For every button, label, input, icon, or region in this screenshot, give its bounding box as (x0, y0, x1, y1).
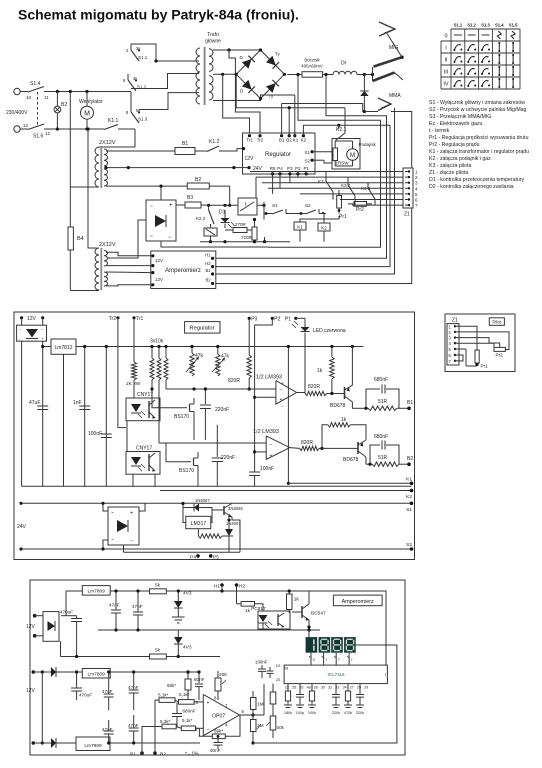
svg-text:II: II (444, 58, 448, 64)
svg-text:3: 3 (313, 658, 315, 662)
svg-text:220nF: 220nF (221, 455, 235, 461)
pin S2 (311, 159, 314, 162)
svg-text:K1.2: K1.2 (209, 139, 220, 145)
switch K1.1 (104, 125, 118, 130)
wire bs170 lower nets (166, 443, 187, 462)
svg-text:47nF: 47nF (132, 604, 143, 609)
svg-text:Amperomierz: Amperomierz (342, 599, 374, 605)
svg-text:Pr2 - Regulacja prądu: Pr2 - Regulacja prądu (429, 142, 480, 148)
svg-text:−: − (130, 538, 133, 544)
switch K1.2 (195, 150, 207, 152)
svg-text:2N3055: 2N3055 (228, 506, 243, 511)
svg-text:BD678: BD678 (330, 403, 346, 409)
valve Ez coil (204, 228, 217, 236)
svg-text:B3: B3 (187, 195, 193, 201)
svg-text:−: − (207, 727, 210, 733)
svg-text:680nF: 680nF (374, 434, 388, 440)
bottom rail 24V (123, 545, 125, 552)
svg-text:BD678: BD678 (343, 457, 359, 463)
wire 270R to rail (222, 535, 229, 537)
switch MMA blade (373, 73, 395, 82)
svg-text:Regulator: Regulator (265, 152, 291, 158)
svg-text:Tr2: Tr2 (257, 138, 264, 143)
fuse B3 (185, 202, 201, 208)
svg-text:+: + (207, 701, 210, 707)
svg-text:12V: 12V (26, 624, 36, 630)
wire bs170 upper nets (152, 389, 183, 408)
svg-text:S1 - Wyłącznik główny i zmiana: S1 - Wyłącznik główny i zmiana zakresów (429, 100, 525, 106)
fuse B2 (187, 183, 209, 189)
wire B2 fuse (209, 185, 229, 187)
regulator LM317 (139, 504, 145, 512)
svg-text:K1: K1 (406, 477, 412, 483)
svg-text:12V: 12V (27, 316, 37, 322)
wire trafo secondary to bridge (213, 49, 261, 51)
svg-text:+: + (130, 511, 133, 517)
svg-text:100nF: 100nF (88, 431, 102, 437)
wires display to ICL (310, 653, 312, 665)
capacitor 680nF op (172, 713, 182, 715)
wires regulator bottom pins drop (272, 174, 274, 194)
svg-text:B2: B2 (61, 102, 67, 108)
resistor 1k H2 (236, 585, 238, 604)
svg-text:1k: 1k (317, 368, 323, 374)
switch S1.3 (130, 106, 132, 112)
svg-text:820R: 820R (308, 384, 320, 390)
wire bottom small rail (200, 241, 290, 243)
svg-text:Lm7809: Lm7809 (88, 589, 106, 595)
svg-text:K2: K2 (321, 226, 327, 231)
svg-text:P5: P5 (213, 555, 219, 561)
input terminal L2 (14, 126, 20, 132)
svg-text:Lm7909: Lm7909 (84, 743, 102, 749)
svg-text:2X12V: 2X12V (99, 242, 116, 248)
wire Tr1 drop (133, 318, 135, 362)
svg-text:12V: 12V (26, 688, 36, 694)
fuse B4 (68, 227, 73, 250)
LED D2 czerwona (296, 317, 305, 319)
svg-text:1RSW: 1RSW (336, 161, 350, 166)
svg-text:Tr1: Tr1 (136, 316, 144, 322)
regulator Lm7909 (76, 737, 110, 751)
svg-text:Z1 - złącze pilota: Z1 - złącze pilota (429, 170, 468, 176)
svg-text:H2: H2 (239, 584, 245, 590)
svg-text:+: + (280, 397, 283, 403)
wire op07 out to right (253, 714, 264, 716)
wire row2 left (155, 726, 162, 728)
pin B2 (288, 134, 291, 137)
svg-text:24V: 24V (253, 166, 263, 172)
wire D1 top (223, 204, 226, 207)
potentiometer Pr1 (337, 196, 342, 209)
wire to primary 1 (134, 129, 136, 147)
regulator board outline (14, 312, 415, 560)
svg-text:S2 - Przycisk w uchwycie palni: S2 - Przycisk w uchwycie palnika Mig/Mag (429, 107, 527, 113)
switch state table S1.1-S1.5 (451, 28, 520, 30)
svg-text:11: 11 (44, 95, 49, 100)
svg-text:820R: 820R (228, 378, 240, 384)
svg-text:470uF: 470uF (60, 610, 73, 615)
svg-text:H1: H1 (205, 253, 211, 258)
terminal Tr2 mid (116, 316, 119, 319)
svg-text:B1: B1 (182, 141, 188, 147)
svg-text:12V: 12V (155, 277, 163, 282)
svg-text:CNY17: CNY17 (137, 392, 153, 398)
svg-text:K1: K1 (293, 138, 299, 143)
regulator Lm7809 no2 (32, 670, 36, 674)
wire bottom rail (48, 128, 104, 130)
terminal B1 bottom (140, 751, 144, 755)
pin K2 (302, 134, 305, 137)
svg-text:60nF: 60nF (210, 748, 221, 753)
wire bc547 to pc817 (262, 629, 264, 630)
wire display top (308, 630, 310, 637)
svg-text:Ty: Ty (275, 52, 281, 57)
svg-text:S3 - Przełącznik MMA/MIG: S3 - Przełącznik MMA/MIG (429, 114, 491, 120)
svg-text:K1 - załącza transformator i r: K1 - załącza transformator i regulator p… (429, 149, 529, 155)
svg-text:12: 12 (23, 123, 29, 128)
svg-text:Pr2: Pr2 (356, 207, 364, 213)
wire S3 S2 row (255, 177, 257, 212)
svg-text:B1: B1 (407, 400, 413, 406)
svg-text:Pr1: Pr1 (481, 364, 489, 369)
svg-text:29: 29 (364, 686, 368, 690)
svg-text:−: − (280, 388, 283, 394)
svg-text:100p: 100p (296, 711, 304, 715)
svg-text:P2: P2 (295, 166, 301, 171)
wire MMA to bottom (213, 112, 412, 284)
pin 12V (242, 147, 245, 150)
svg-text:400A60mV: 400A60mV (301, 63, 323, 68)
resistor 1RSW (333, 148, 338, 161)
svg-text:20: 20 (276, 678, 280, 682)
svg-text:5k: 5k (155, 648, 161, 654)
svg-text:7: 7 (338, 658, 340, 662)
svg-text:S1.4: S1.4 (495, 23, 504, 28)
resistor 1.5k icl (272, 684, 274, 692)
switch S1.1 (130, 44, 132, 50)
wire trafo sense taps Tr1 Tr2 (213, 73, 236, 75)
capacitor 220nF upper (204, 389, 206, 404)
wire CNY17 pins drop (132, 474, 134, 486)
svg-text:Ty: Ty (269, 94, 275, 99)
potentiometer Pr2 pilot (494, 347, 505, 351)
output arrow bottom (364, 111, 378, 113)
svg-text:K1: K1 (297, 225, 303, 230)
svg-text:Pr2: Pr2 (496, 353, 504, 358)
svg-text:47uF: 47uF (109, 603, 120, 608)
svg-text:B2: B2 (205, 278, 211, 283)
svg-text:25: 25 (292, 686, 296, 690)
wire H1 sense (268, 75, 381, 248)
wire 12V rails mid (21, 341, 23, 486)
svg-text:69k*: 69k* (214, 729, 223, 734)
diode 1N4007 over LM317 (183, 507, 194, 509)
svg-text:K2.2: K2.2 (196, 216, 206, 221)
svg-text:1N4007: 1N4007 (226, 521, 241, 526)
svg-text:+: + (270, 454, 273, 460)
svg-text:S1.1: S1.1 (138, 55, 148, 60)
pin K1 (293, 134, 296, 137)
svg-text:ICL7116: ICL7116 (327, 672, 344, 677)
svg-text:680nF: 680nF (183, 709, 196, 714)
svg-text:1nF: 1nF (73, 400, 82, 406)
svg-text:32: 32 (328, 686, 332, 690)
terminal P1 (294, 317, 297, 320)
svg-text:Lm7809: Lm7809 (88, 672, 106, 678)
switch K2.2 (208, 205, 210, 210)
wire bridge2 out bottom (161, 241, 268, 247)
svg-text:5,1k*: 5,1k* (158, 693, 169, 698)
svg-text:1N4007: 1N4007 (195, 498, 210, 503)
svg-text:27: 27 (350, 686, 354, 690)
svg-text:K2: K2 (301, 138, 307, 143)
relay coil K1 (294, 222, 306, 230)
svg-text:P3: P3 (287, 166, 293, 171)
pin 24V (247, 166, 250, 169)
svg-text:MMA: MMA (389, 93, 401, 99)
svg-text:220nF: 220nF (215, 407, 229, 413)
terminal P5 (209, 554, 213, 558)
svg-text:Tr1: Tr1 (246, 138, 253, 143)
svg-text:5,1k*: 5,1k* (179, 692, 190, 697)
svg-text:K2: K2 (406, 494, 412, 500)
ground rail mid (22, 485, 412, 487)
svg-text:B2: B2 (160, 752, 166, 758)
svg-text:10: 10 (26, 95, 32, 100)
svg-text:51R: 51R (378, 455, 388, 461)
svg-text:BC547: BC547 (311, 611, 326, 617)
terminal 12V mid (20, 316, 23, 319)
ground sym upper (172, 616, 185, 618)
svg-text:Lm7812: Lm7812 (54, 345, 72, 351)
svg-text:12V: 12V (245, 156, 255, 162)
pilot box outline (445, 314, 515, 372)
svg-text:47uF: 47uF (102, 689, 113, 694)
pin B1 (280, 134, 283, 137)
svg-text:S2: S2 (305, 203, 311, 208)
wire b-rails upper (66, 615, 77, 617)
svg-text:230/400V: 230/400V (6, 110, 28, 116)
terminal Tr1 mid (132, 316, 135, 319)
svg-text:12: 12 (45, 131, 51, 136)
svg-text:1k: 1k (341, 417, 347, 423)
wires regulator top pins (281, 104, 283, 136)
bridge rectifier mid-12V (17, 325, 47, 341)
regulator Lm7812 (51, 339, 76, 354)
wire H1 drop (221, 585, 223, 591)
svg-text:B1: B1 (205, 268, 211, 273)
svg-text:−: − (270, 442, 273, 448)
svg-text:S2: S2 (406, 542, 412, 548)
relay coil K2 (318, 223, 330, 231)
svg-text:B1: B1 (279, 138, 285, 143)
block Podajnik wire feeder (332, 139, 360, 170)
svg-text:~: ~ (111, 510, 114, 515)
svg-text:LM317: LM317 (191, 521, 207, 527)
svg-text:100nF: 100nF (260, 466, 274, 472)
wire B2 sense (213, 108, 395, 274)
svg-text:1/2 LM393: 1/2 LM393 (256, 375, 282, 381)
svg-text:Wentylator: Wentylator (79, 99, 103, 105)
wire op07 out (239, 714, 253, 716)
wire CNY17 link (126, 421, 128, 452)
wire S1 S2 to podajnik (312, 151, 332, 153)
svg-text:24V: 24V (17, 524, 27, 530)
IC ICL7116 (284, 665, 387, 684)
wire top rail (48, 91, 131, 93)
capacitor 100nF mid2 (249, 471, 260, 473)
label Pilot (489, 318, 504, 326)
svg-text:BS170: BS170 (179, 468, 194, 474)
wire 2n3055 emitter (232, 517, 240, 552)
svg-text:S2: S2 (304, 158, 310, 163)
svg-text:Z1: Z1 (452, 318, 458, 324)
svg-text:D1: D1 (276, 664, 281, 668)
capacitor 470uF b1 (71, 618, 82, 620)
svg-text:470uF: 470uF (79, 693, 92, 698)
svg-text:470k: 470k (344, 711, 352, 715)
svg-text:Regulator: Regulator (189, 326, 214, 332)
terminal B2 mid (407, 462, 411, 466)
svg-text:12V: 12V (155, 258, 163, 263)
switch MIG blade (374, 57, 403, 66)
svg-text:51R: 51R (378, 399, 388, 405)
passives under ICL (287, 684, 289, 691)
wires K3 contacts drop (332, 196, 334, 200)
svg-text:Trafo: Trafo (207, 32, 219, 38)
potentiometer Pr1 pilot (475, 350, 479, 363)
terminal K1 mid (288, 482, 411, 484)
wire row1 left (155, 699, 159, 701)
svg-text:~: ~ (150, 204, 153, 210)
terminal S2 mid (19, 547, 22, 550)
svg-text:1/2 LM393: 1/2 LM393 (253, 429, 279, 435)
bridge rectifier 24V (108, 507, 139, 545)
svg-text:2X12V: 2X12V (99, 140, 116, 146)
svg-text:M: M (84, 110, 90, 117)
svg-text:0: 0 (444, 34, 447, 40)
svg-text:H2: H2 (205, 261, 211, 266)
svg-text:B4: B4 (77, 236, 84, 242)
wire B1 sense (213, 125, 390, 266)
amperomierz board outline (30, 580, 405, 755)
svg-text:7: 7 (325, 658, 327, 662)
svg-text:OP07: OP07 (212, 714, 225, 720)
svg-text:+: + (169, 203, 173, 209)
svg-text:180k: 180k (284, 711, 292, 715)
svg-text:D2 - kontrolka załączonego zas: D2 - kontrolka załączonego zasilania (429, 184, 514, 190)
terminal B1 mid (407, 407, 411, 411)
wire t node (209, 204, 238, 206)
svg-text:P4: P4 (190, 555, 196, 561)
pin S1 (311, 150, 314, 153)
svg-text:28: 28 (314, 686, 318, 690)
svg-text:+: + (282, 381, 285, 386)
svg-text:I: I (385, 672, 386, 677)
svg-text:S3: S3 (272, 203, 278, 208)
svg-text:5,1k*: 5,1k* (182, 718, 193, 723)
svg-text:P1: P1 (303, 166, 309, 171)
output arrow top (379, 22, 395, 36)
svg-text:K2 - załącza podajnik i gaz: K2 - załącza podajnik i gaz (429, 156, 491, 162)
bridge rectifier 2 (146, 200, 176, 241)
wire bundle to Z1 (250, 171, 403, 173)
wire sec taps upper (106, 150, 175, 152)
svg-text:3x10k: 3x10k (150, 339, 164, 345)
svg-text:20k: 20k (219, 672, 227, 678)
svg-text:IV: IV (443, 82, 449, 88)
svg-text:B1: B1 (130, 752, 136, 758)
pin Tr1 (248, 134, 251, 137)
wire sec taps lower (106, 252, 151, 256)
svg-text:P2: P2 (274, 317, 280, 323)
terminal H1 bottom (220, 583, 224, 587)
wire 12V col (41, 672, 43, 743)
wire primary bottoms (70, 186, 99, 188)
wire Tr2 drop (118, 318, 126, 428)
wire opamp1 inputs (166, 388, 276, 390)
wire opamp2 inputs (159, 442, 266, 444)
label Amperomierz bottom (333, 595, 382, 606)
svg-text:t - termik: t - termik (429, 128, 450, 134)
svg-text:680nF: 680nF (374, 377, 388, 383)
svg-text:B2: B2 (407, 456, 413, 462)
svg-text:4V3: 4V3 (183, 645, 192, 651)
svg-text:220k: 220k (332, 711, 340, 715)
potentiometer Pr2 (354, 202, 367, 207)
diode to output (360, 91, 368, 96)
block Amperomierz top (151, 251, 216, 289)
terminal B2 bottom (153, 751, 157, 755)
motor M Podajnik (347, 149, 359, 161)
svg-text:5k: 5k (155, 583, 161, 589)
svg-text:S1.4: S1.4 (30, 81, 41, 87)
capacitor 220nF lower (216, 425, 218, 457)
pins H1 H2 B1 B2 amperomierz (211, 257, 214, 260)
terminal S1 mid (19, 502, 22, 505)
relay coil K3 (264, 237, 266, 242)
terminal P4 (196, 554, 200, 558)
svg-text:S1.2: S1.2 (467, 23, 476, 28)
svg-text:Pr1: Pr1 (339, 214, 347, 220)
svg-text:Podajnik: Podajnik (359, 142, 377, 147)
svg-text:Amperomierz: Amperomierz (165, 268, 201, 274)
svg-text:S1.3: S1.3 (138, 117, 148, 122)
wire S1.3 to trafo (139, 93, 199, 110)
svg-text:~: ~ (150, 234, 153, 240)
svg-text:Pr1 - Regulacja prędkości wysu: Pr1 - Regulacja prędkości wysuwania drut… (429, 135, 529, 141)
svg-text:28: 28 (284, 667, 288, 671)
input terminal L1 (14, 88, 20, 94)
svg-text:S1.6: S1.6 (33, 134, 44, 140)
svg-text:M: M (350, 152, 355, 159)
wire right side rails bottom (253, 645, 397, 743)
svg-text:P4: P4 (277, 166, 283, 171)
resistor 270R mid (197, 529, 199, 536)
svg-text:47k: 47k (221, 354, 230, 360)
svg-text:BS170: BS170 (174, 414, 189, 420)
svg-text:S1.1: S1.1 (454, 23, 463, 28)
resistor 2K 2W (132, 362, 137, 380)
terminal P3 (248, 317, 251, 320)
svg-text:Pilot: Pilot (492, 320, 502, 325)
svg-text:47uF: 47uF (29, 400, 40, 406)
svg-text:Bocznik: Bocznik (304, 58, 320, 63)
svg-text:~: ~ (111, 537, 114, 542)
terminal P2 (271, 317, 274, 320)
svg-text:−: − (281, 404, 284, 409)
